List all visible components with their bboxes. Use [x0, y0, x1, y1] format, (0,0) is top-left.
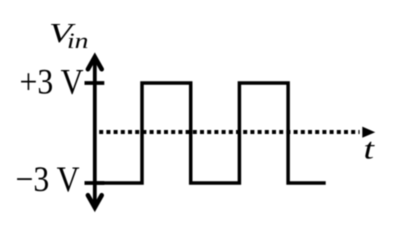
axis Vin bottom arrowhead [88, 195, 102, 207]
t axis dotted zero line [99, 130, 359, 134]
axis Vin top arrowhead [88, 57, 102, 69]
svg-text:−3 V: −3 V [16, 159, 80, 199]
svg-text:in: in [67, 28, 89, 53]
tick +3V [85, 81, 105, 85]
axis Vin vertical line [93, 57, 97, 207]
square wave Vin(t) [95, 83, 326, 183]
t axis arrowhead [362, 127, 375, 138]
svg-text:+3 V: +3 V [20, 62, 84, 102]
tick -3V [85, 181, 105, 185]
svg-text:t: t [364, 133, 375, 166]
